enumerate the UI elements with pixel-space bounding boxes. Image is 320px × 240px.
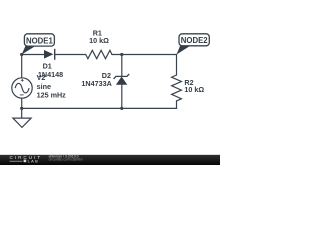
- wire: zener bottom lead: [121, 85, 123, 109]
- svg-text:V2: V2: [37, 73, 46, 82]
- svg-text:10 kΩ: 10 kΩ: [89, 36, 109, 45]
- junction dot NODE1: [20, 53, 23, 56]
- wire top: D1 cathode to R1: [55, 54, 86, 56]
- voltage source V2: [12, 78, 32, 98]
- wire top: R1 to node2 corner: [112, 54, 177, 56]
- wire: V2 bottom to ground node: [21, 98, 23, 108]
- node flag NODE1: [22, 34, 55, 55]
- junction dot node A (top of zener): [120, 53, 123, 56]
- resistor R1: [86, 50, 112, 58]
- svg-text:LAB: LAB: [28, 158, 40, 163]
- wire top: node1 to D1 anode: [22, 54, 44, 56]
- svg-text:circuitlab.com/c8shlbx: circuitlab.com/c8shlbx: [49, 157, 83, 161]
- logo LAB line: [10, 160, 23, 162]
- junction dot bottom of zener: [120, 107, 123, 110]
- svg-text:125 mHz: 125 mHz: [37, 91, 67, 100]
- svg-text:10 kΩ: 10 kΩ: [184, 85, 204, 94]
- watermark bar: [0, 154, 220, 165]
- resistor R2: [172, 75, 182, 101]
- wire bottom rail: [22, 107, 177, 109]
- logo LAB square: [24, 160, 27, 163]
- svg-text:1N4733A: 1N4733A: [81, 79, 111, 88]
- ground: [13, 108, 31, 127]
- diode D1: [44, 49, 55, 60]
- svg-text:NODE2: NODE2: [181, 36, 209, 45]
- svg-text:D1: D1: [43, 61, 52, 70]
- wire: R2 bottom lead: [176, 101, 178, 109]
- zener diode D2: [114, 74, 130, 85]
- node flag NODE2: [177, 34, 210, 55]
- wire left vertical: node1 down to V2 top: [21, 55, 23, 78]
- svg-text:NODE1: NODE1: [26, 36, 54, 45]
- junction dot ground node: [20, 107, 23, 110]
- wire right vertical: node2 corner to R2: [176, 55, 178, 76]
- wire: zener top lead: [121, 55, 123, 77]
